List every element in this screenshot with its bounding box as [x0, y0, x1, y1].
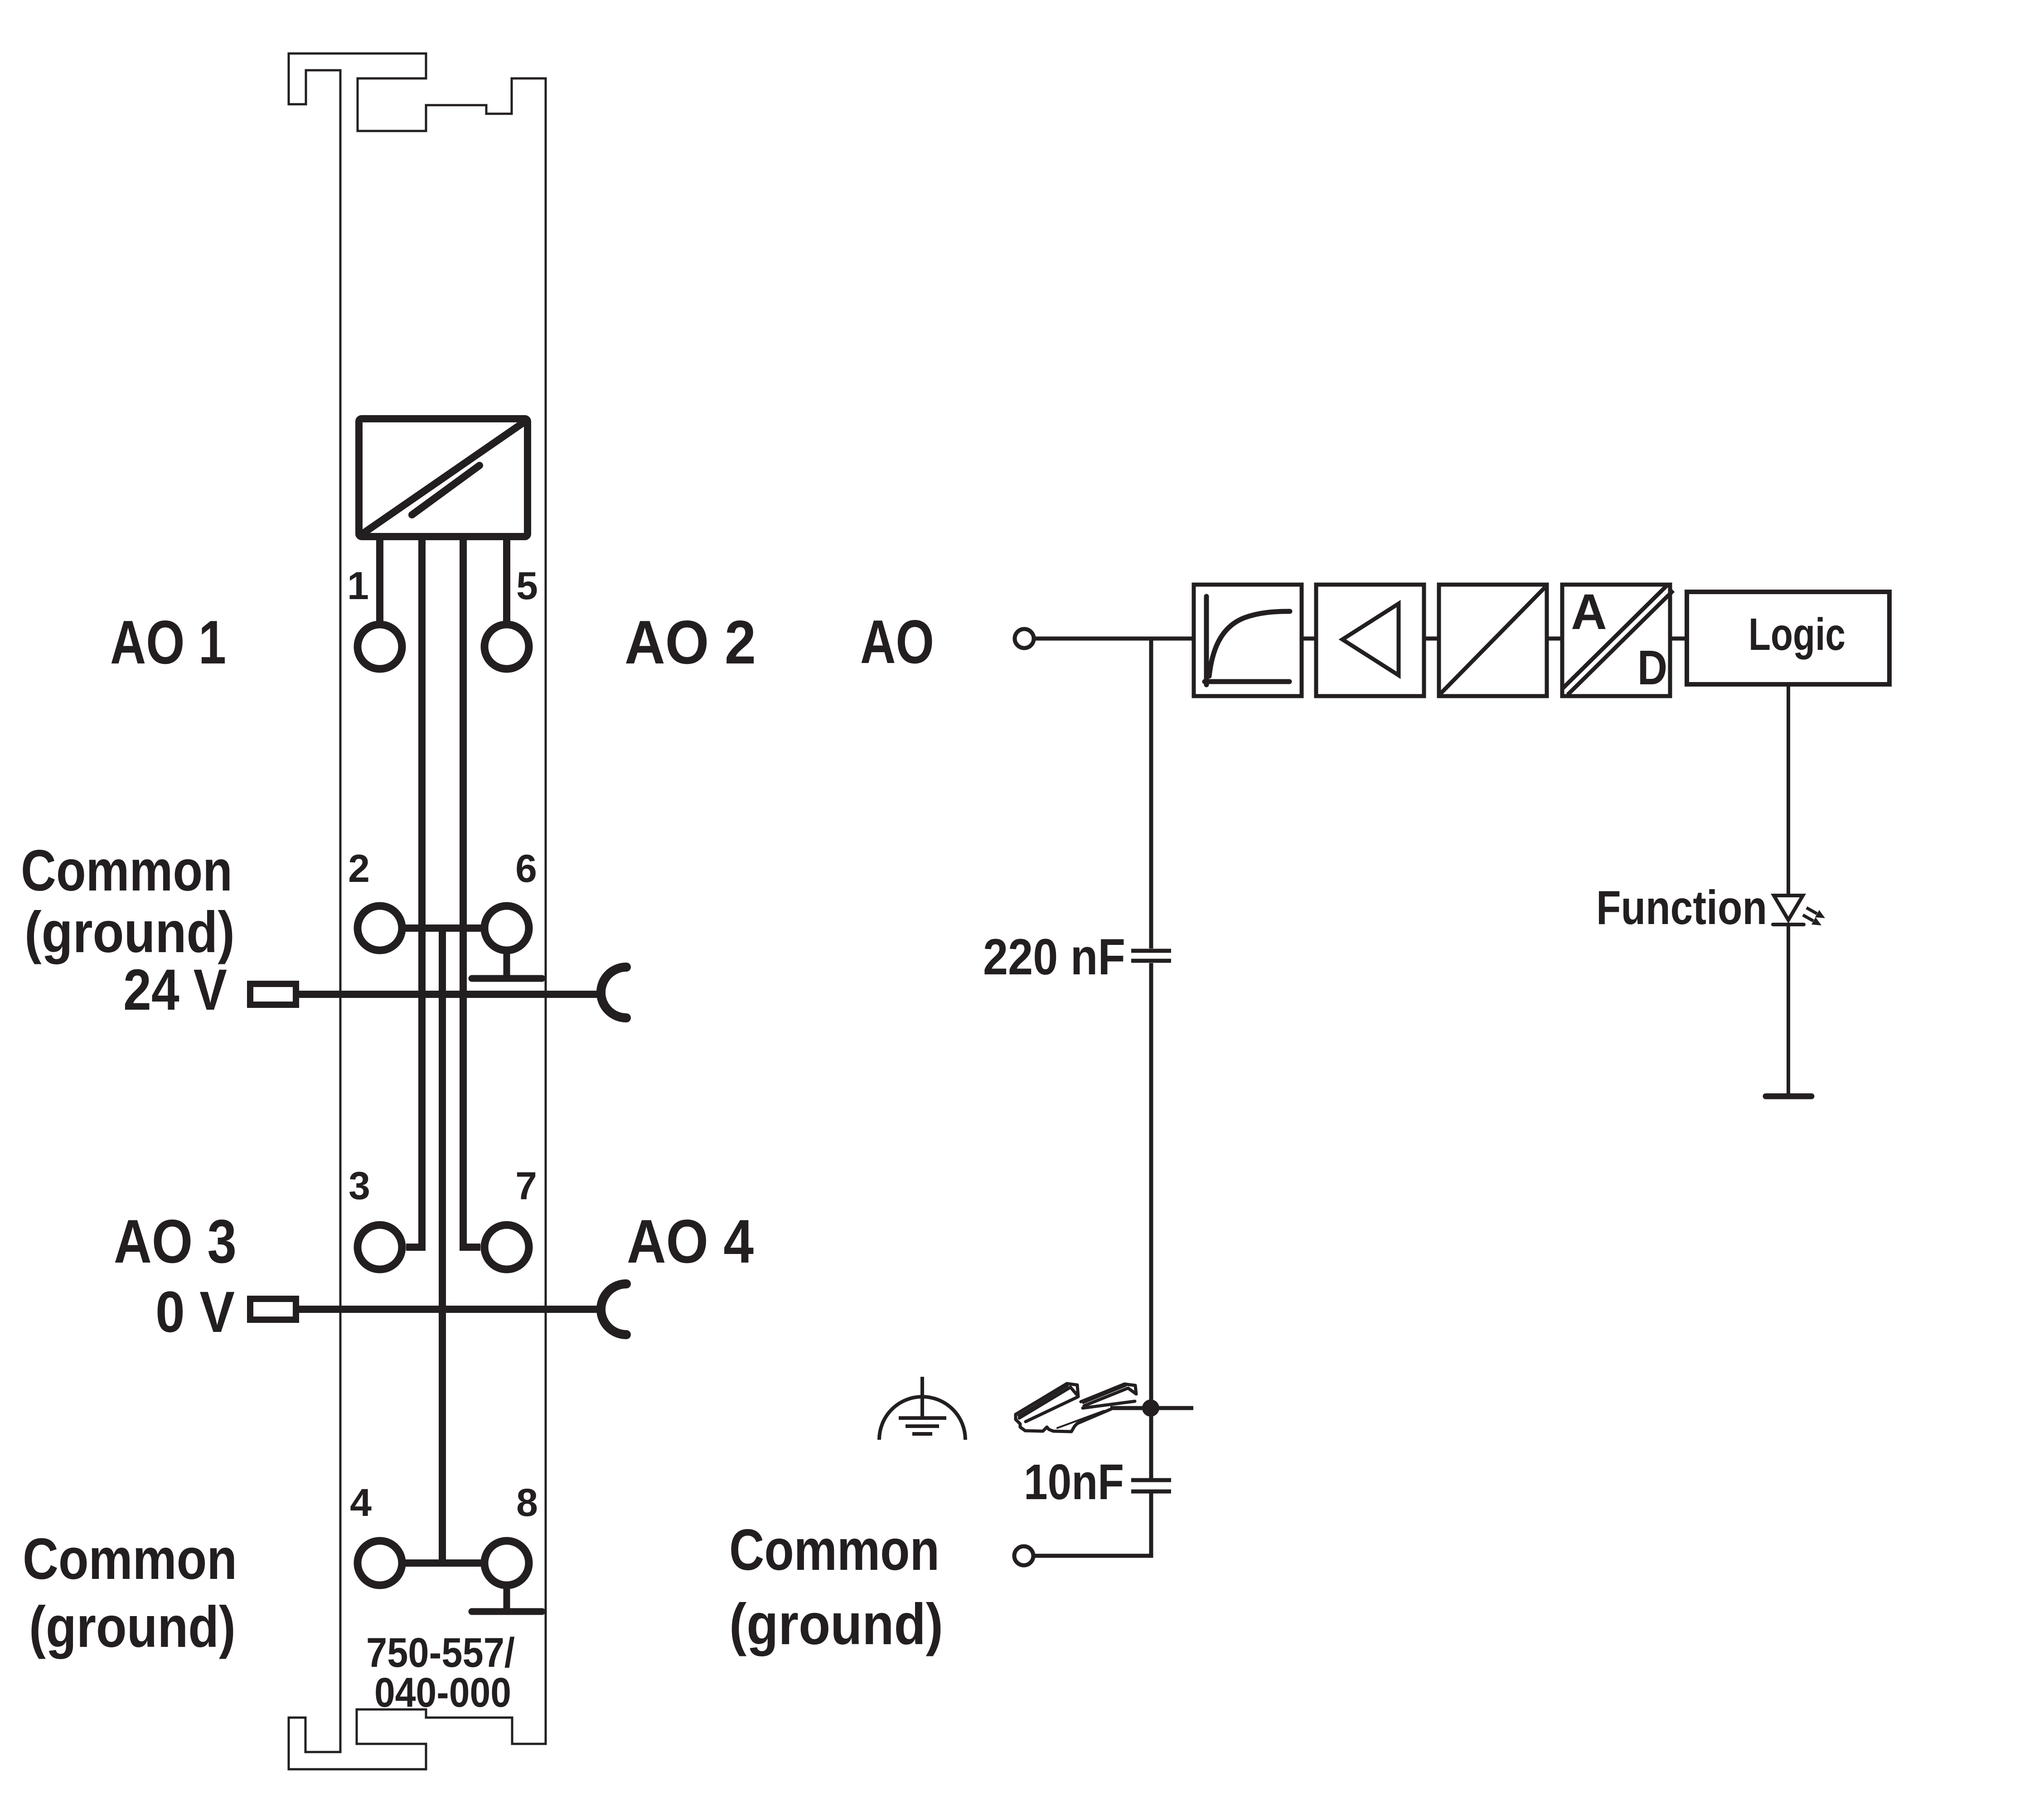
svg-text:A: A	[1571, 584, 1607, 640]
svg-text:3: 3	[349, 1164, 370, 1208]
svg-text:Common: Common	[23, 1527, 237, 1592]
filter curve axes	[1205, 596, 1290, 685]
amplifier box	[1316, 585, 1424, 696]
terminal 4	[358, 1541, 402, 1585]
LED light arrow 1	[1806, 908, 1825, 918]
AO wire	[1034, 637, 1194, 641]
wire 10nF to common	[1034, 1493, 1151, 1556]
24V jumper contact arc	[601, 967, 626, 1018]
junction dot	[1142, 1399, 1159, 1417]
wire box3-box4	[1547, 637, 1562, 641]
wire box4-logic	[1671, 637, 1687, 641]
wire stub pin5	[503, 540, 510, 622]
svg-text:(ground): (ground)	[29, 1595, 236, 1660]
wire box2-box3	[1424, 637, 1439, 641]
svg-text:7: 7	[515, 1164, 537, 1208]
terminal 1	[358, 624, 402, 669]
terminal 6	[484, 906, 529, 950]
filter box	[1194, 585, 1302, 696]
24V power jumper connector	[250, 984, 296, 1005]
wire pin2-pin6	[406, 925, 481, 932]
LED light arrow 2	[1803, 915, 1821, 925]
LED function diode	[1773, 895, 1804, 925]
wire DIN rail to junction	[1110, 1406, 1193, 1410]
capacitor 10nF	[1131, 1480, 1171, 1491]
wire 220nF to junction	[1149, 963, 1153, 1478]
svg-text:8: 8	[516, 1481, 538, 1525]
24V wire	[299, 991, 600, 998]
svg-text:Common: Common	[729, 1518, 940, 1583]
DC/DC converter U1	[359, 419, 528, 537]
Logic box	[1687, 592, 1889, 684]
wire LED to ground	[1787, 926, 1790, 1094]
svg-text:(ground): (ground)	[729, 1592, 943, 1657]
svg-text:Function: Function	[1596, 881, 1767, 934]
wire box1-box2	[1302, 637, 1316, 641]
wire to pin3	[406, 539, 422, 1247]
0V wire	[299, 1306, 600, 1313]
svg-text:040-000: 040-000	[374, 1670, 511, 1716]
svg-text:AO 2: AO 2	[625, 608, 756, 677]
svg-text:220 nF: 220 nF	[983, 929, 1125, 985]
A/D diagonals	[1562, 585, 1673, 695]
ground bar at pin6	[472, 954, 542, 978]
terminal 2	[358, 906, 402, 950]
svg-text:Common: Common	[21, 838, 232, 903]
capacitor 220nF	[1131, 951, 1171, 961]
svg-text:D: D	[1637, 640, 1667, 695]
svg-text:AO: AO	[860, 607, 934, 676]
terminal 5	[484, 624, 529, 669]
0V power jumper connector	[250, 1299, 296, 1320]
wire branch to 220nF	[1149, 639, 1153, 949]
ground bar LED	[1766, 1094, 1811, 1099]
svg-text:24 V: 24 V	[123, 958, 227, 1022]
svg-text:Logic: Logic	[1748, 609, 1845, 660]
svg-text:750-557/: 750-557/	[366, 1630, 515, 1676]
terminal 7	[484, 1225, 529, 1269]
svg-text:(ground): (ground)	[24, 900, 235, 965]
wire common middle	[439, 928, 446, 1563]
wire stub pin1	[376, 540, 383, 622]
wire logic to LED	[1787, 684, 1790, 894]
earth symbol	[879, 1377, 965, 1440]
svg-text:AO 4: AO 4	[627, 1207, 754, 1276]
svg-text:0 V: 0 V	[155, 1280, 235, 1345]
svg-text:10nF: 10nF	[1024, 1454, 1124, 1510]
ground bar at pin8	[472, 1589, 542, 1612]
converter diagonal	[1441, 587, 1545, 693]
svg-text:4: 4	[350, 1481, 372, 1525]
module outline 750-557 body	[289, 53, 546, 1769]
AO input terminal circle	[1015, 629, 1034, 648]
amplifier triangle	[1342, 604, 1399, 675]
svg-text:2: 2	[348, 847, 370, 891]
svg-text:5: 5	[516, 564, 538, 608]
svg-text:AO 3: AO 3	[114, 1207, 237, 1276]
svg-text:1: 1	[347, 564, 369, 608]
0V jumper contact arc	[601, 1284, 626, 1335]
wire to pin7	[463, 539, 480, 1247]
converter box	[1439, 585, 1547, 696]
common terminal circle	[1014, 1546, 1033, 1565]
wire pin4-pin8	[406, 1559, 481, 1567]
terminal 3	[358, 1225, 402, 1269]
terminal 8	[484, 1541, 529, 1585]
A/D converter box	[1562, 585, 1670, 696]
svg-text:6: 6	[515, 847, 537, 891]
DIN rail symbol	[1016, 1384, 1136, 1432]
svg-text:AO 1: AO 1	[110, 608, 226, 677]
